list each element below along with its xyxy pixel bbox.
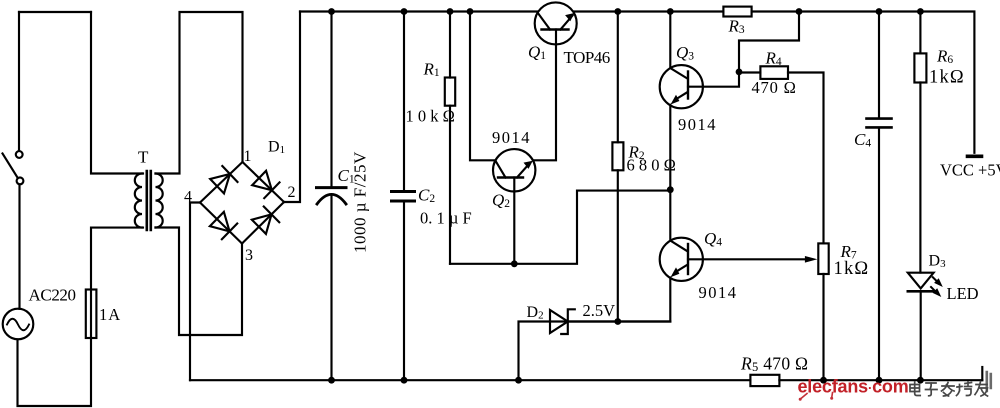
svg-text:C4: C4 [854,130,871,150]
bridge diode 4-1 [210,166,238,194]
fuse 1A [86,290,97,339]
svg-text:2.5V: 2.5V [583,301,616,320]
wire bridge node 4 to bottom rail [190,203,200,381]
resistor R1 lower lead [449,106,451,264]
svg-text:R6: R6 [936,47,953,67]
junction dot zener-R2 node [614,318,621,325]
svg-text:LED: LED [947,284,979,303]
capacitor C4 upper lead [878,12,880,118]
wire top rail R3 to right edge, down to VCC [752,12,975,153]
char shao [957,382,972,396]
capacitor C1 lower lead [330,196,332,380]
svg-text:6 8 0 Ω: 6 8 0 Ω [627,156,676,175]
svg-text:D2: D2 [527,304,544,322]
resistor R2 upper lead [617,12,619,143]
svg-text:R4: R4 [765,49,782,69]
bridge diode 3-2 [251,207,279,235]
resistor R7 potentiometer [818,243,828,274]
svg-text:9014: 9014 [699,283,738,302]
junction dot R4 node [736,69,743,76]
char you [975,382,988,397]
resistor R6 lower lead [919,83,921,273]
bridge D1 side 1-2 [243,162,285,202]
resistor R1 [445,78,455,106]
svg-text:Q1: Q1 [528,43,546,63]
char zi [926,383,938,396]
bottom rail end stub [981,367,983,380]
switch S [3,151,24,184]
wire D3 lower lead [920,291,922,380]
svg-text:4: 4 [184,189,192,206]
svg-text:R3: R3 [728,17,745,37]
wire R3 bypass to R4 [739,12,799,72]
LED D3 [908,273,943,297]
svg-text:1A: 1A [99,305,121,324]
svg-text:1: 1 [244,148,252,165]
bridge D1 side 4-1 [200,162,243,203]
wire Q2 base lead down [513,178,515,264]
transformer T primary coil [135,174,142,228]
wire R1 bottom to Q2 base to corner [450,191,670,264]
wire Q4 emitter down to zener line [519,277,671,380]
resistor R2 [612,142,623,170]
svg-text:1 0 k Ω: 1 0 k Ω [406,107,455,126]
bridge diode 1-2 [252,170,280,198]
wire secondary bottom to bridge node 3 [156,228,243,336]
svg-text:VCC +5V: VCC +5V [940,161,1000,180]
resistor R6 upper lead [919,12,921,54]
resistor R3 [723,7,751,17]
svg-text:T: T [138,148,149,167]
junction dot Q2 base node [511,260,518,267]
resistor R4 leads [739,73,824,244]
char fa [942,383,955,397]
wire Q3 emitter down to node [669,105,671,190]
svg-text:2: 2 [288,184,296,201]
watermark red drips [799,393,834,401]
resistor R6 [914,53,926,82]
svg-text:D1: D1 [268,139,285,157]
bottom rail right of R5 [779,379,982,381]
watermark end bars [987,372,991,391]
wire Q4 collector from node [669,190,671,241]
capacitor C1 [317,188,347,204]
capacitor C4 [867,119,892,128]
wire Q3 collector to top rail [669,12,671,69]
svg-text:470 Ω: 470 Ω [752,78,797,97]
bridge diode 4-3 [209,211,237,239]
char dian [910,382,920,396]
transistor Q2 9014 [493,149,535,191]
transistor Q4 9014 [660,238,703,281]
resistor R2 lower lead [617,170,619,321]
svg-text:AC220: AC220 [29,286,76,305]
wire Q3 base to R4 node [688,72,739,87]
resistor R1 upper lead [449,12,451,78]
junction dot Q3 emitter node [667,186,674,193]
svg-text:Q4: Q4 [704,229,722,249]
wire top rail left of Q1 [300,10,537,12]
capacitor C2 lower lead [403,202,405,380]
transformer T secondary coil [156,174,163,228]
svg-text:1kΩ: 1kΩ [929,68,965,88]
transformer T core [147,171,151,230]
wire top-left loop right side down to primary top [91,12,143,174]
watermark chinese 电子发烧友 (drawn strokes) [910,382,988,397]
svg-text:1000 µ F/25V: 1000 µ F/25V [351,151,370,253]
svg-text:D3: D3 [929,253,947,271]
wire zener to R2/Q4 node [568,320,670,322]
wire top-left loop top side [19,11,91,13]
svg-text:1kΩ: 1kΩ [834,259,870,279]
wire secondary top to bridge node 1 [156,12,243,174]
bottom rail left of R5 [190,379,750,381]
svg-text:9014: 9014 [678,115,717,134]
junction dots bottom rail [328,377,924,384]
svg-text:R1: R1 [423,60,440,80]
resistor R4 [760,66,788,79]
wire AC source bottom loop [18,338,92,406]
svg-text:R5 470 Ω: R5 470 Ω [740,354,808,375]
capacitor C1 branch upper lead [330,12,332,187]
wire bridge node 2 to top rail [284,12,300,203]
transistor Q1 TOP46 [535,2,577,44]
VCC terminal bar [968,155,982,159]
wire left mains down to switch [18,12,20,150]
bridge D1 side 3-2 [242,202,284,244]
capacitor C4 lower lead [878,129,880,381]
transistor Q3 9014 [660,65,703,108]
svg-text:Q2: Q2 [492,191,510,211]
AC source AC220 [3,309,34,340]
bridge D1 side 4-3 [200,203,242,244]
svg-text:TOP46: TOP46 [564,48,610,67]
svg-text:3: 3 [245,247,253,264]
resistor R5 [750,375,779,386]
wire Q2 collector to top rail [470,12,495,161]
wire top rail Q1 to R3 [575,10,724,12]
wire Q1 base down to Q2 emitter [535,30,557,161]
svg-text:elecfans·com: elecfans·com [798,377,909,397]
wire Q4 base to R7 wiper with arrow [688,258,810,260]
junction dots top rail [328,8,924,15]
wire R7 lower lead [822,274,824,380]
wire switch to AC source [18,185,20,309]
wire fuse through lead [91,228,143,338]
svg-text:C2: C2 [418,186,435,206]
svg-text:Q3: Q3 [676,43,694,63]
svg-text:9014: 9014 [492,128,531,147]
capacitor C2 [392,192,415,202]
zener D2 [550,309,575,334]
capacitor C2 upper lead [403,12,405,192]
svg-text:0. 1 µ F: 0. 1 µ F [420,209,472,228]
